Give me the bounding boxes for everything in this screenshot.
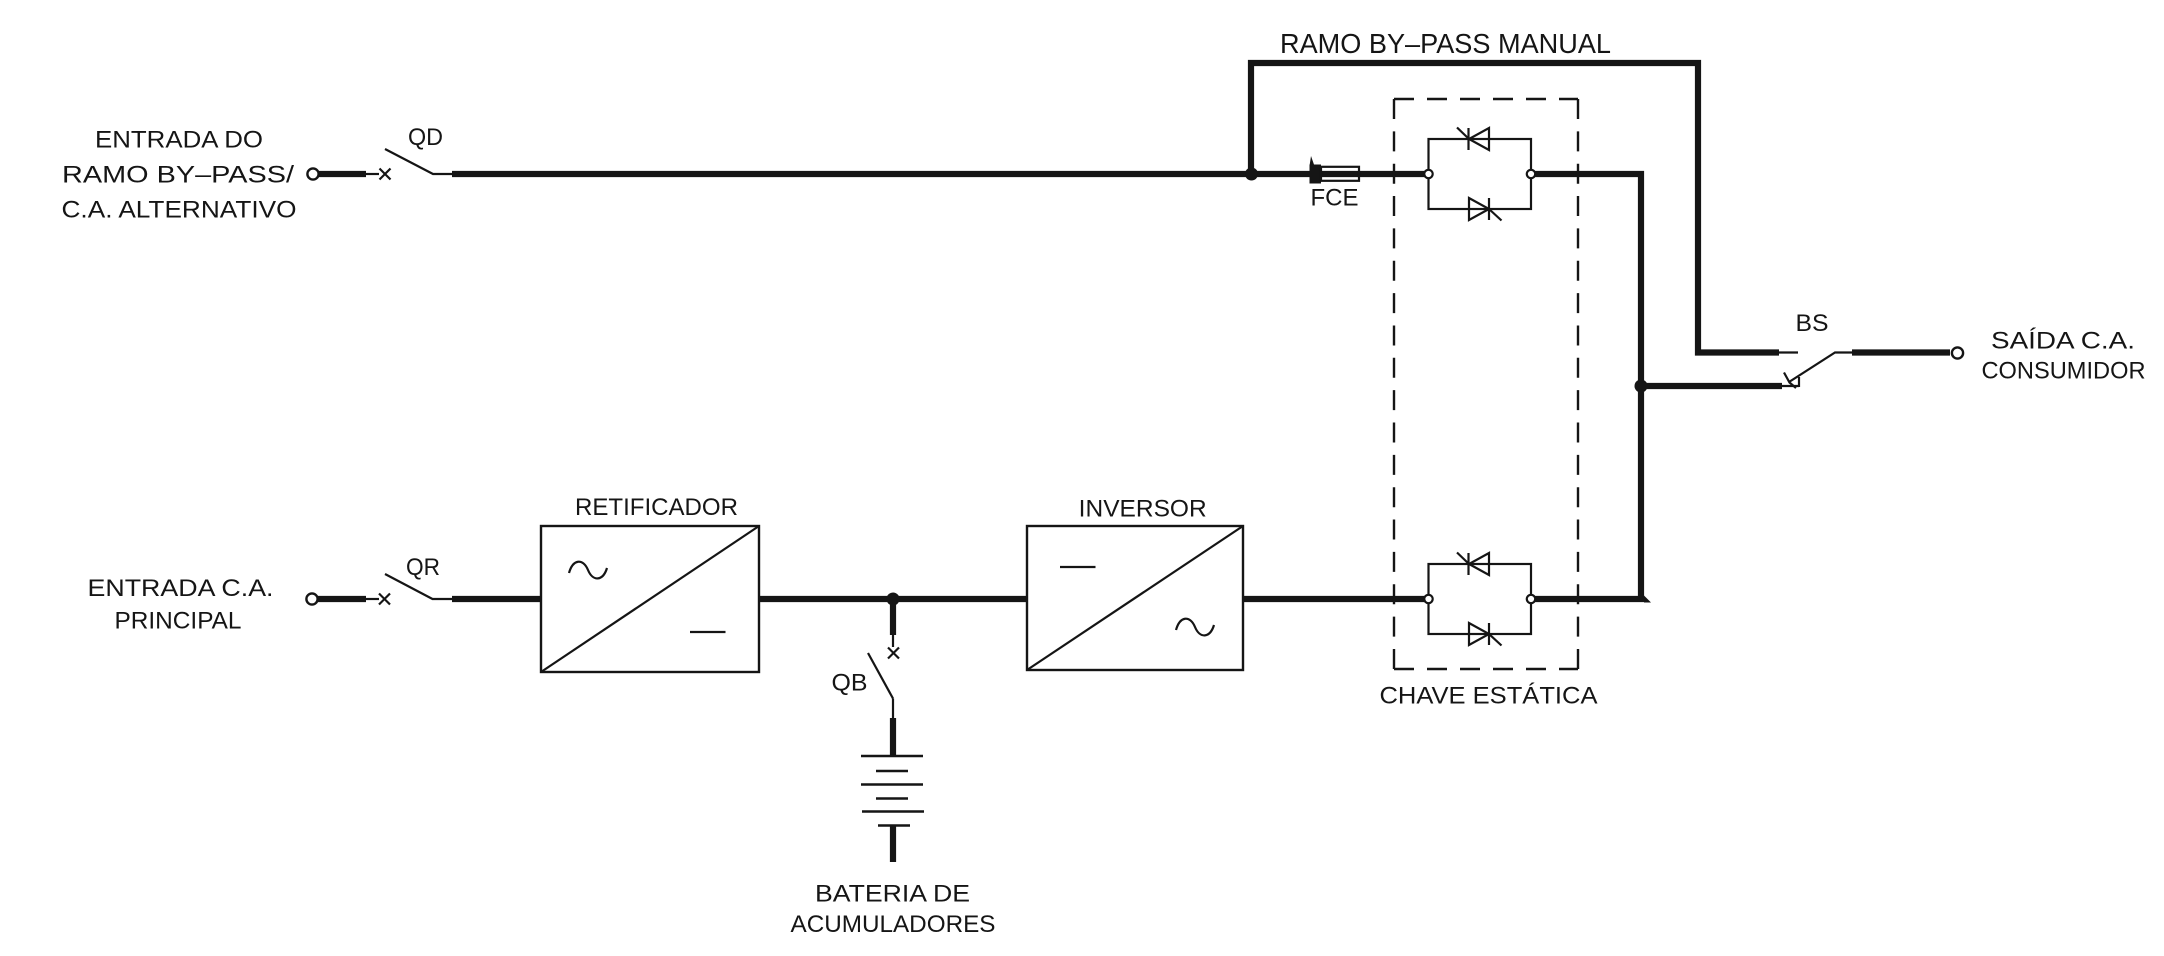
- battery plates: [861, 755, 923, 758]
- terminal: saida c.a.: [1952, 347, 1963, 358]
- svg-text:ENTRADA DO: ENTRADA DO: [95, 127, 263, 154]
- junction: battery tap: [887, 593, 900, 606]
- rectifier ac sine: [569, 562, 607, 579]
- terminal circles upper cell: [1424, 170, 1432, 178]
- inverter ac sine: [1176, 619, 1214, 636]
- static switch upper cell frame: [1429, 139, 1532, 209]
- svg-text:RETIFICADOR: RETIFICADOR: [575, 494, 738, 521]
- svg-text:ACUMULADORES: ACUMULADORES: [791, 911, 996, 938]
- svg-text:QR: QR: [406, 554, 440, 581]
- fuse FCE filled block: [1310, 165, 1322, 184]
- wire: output stub to consumer: [1852, 349, 1950, 355]
- wire: BS ups contact feed: [1641, 383, 1782, 389]
- wire thin before contact: [366, 598, 379, 600]
- bevel tail at output bus corner: [1644, 596, 1651, 603]
- terminal: entrada principal: [306, 593, 317, 604]
- wire: battery branch upper: [890, 599, 896, 635]
- inverter diagonal: [1027, 526, 1243, 670]
- wire: dc link: [759, 596, 1027, 602]
- switch QD blade: [385, 149, 452, 174]
- switch QB blade: [868, 653, 893, 699]
- thyristor lower cell top (points left): [1469, 553, 1489, 575]
- svg-text:RAMO BY–PASS/: RAMO BY–PASS/: [62, 162, 294, 189]
- svg-text:ENTRADA C.A.: ENTRADA C.A.: [88, 575, 274, 602]
- switch BS blade: [1789, 353, 1852, 383]
- wire: inverter output to static switch: [1243, 596, 1425, 602]
- blade arrowhead: [1784, 373, 1796, 389]
- wire stub at entrada by-pass terminal: [319, 171, 366, 177]
- svg-text:QB: QB: [832, 670, 868, 697]
- contact x of QD: [380, 169, 391, 180]
- fuse FCE cartridge outline: [1321, 167, 1359, 181]
- switch QR blade: [385, 574, 452, 599]
- wire thin before contact: [366, 173, 379, 175]
- svg-text:BATERIA DE: BATERIA DE: [815, 881, 970, 908]
- svg-text:C.A. ALTERNATIVO: C.A. ALTERNATIVO: [62, 197, 297, 224]
- inverter box: [1027, 526, 1243, 670]
- fuse FCE body spike: [1310, 156, 1315, 166]
- contact x of QR: [379, 594, 390, 605]
- dashed enclosure: chave estatica: [1394, 98, 1578, 100]
- svg-text:QD: QD: [408, 124, 443, 151]
- inverter dc dash: [1060, 566, 1096, 568]
- contact hook BS: [1798, 377, 1800, 387]
- thyristor upper cell bottom (points right): [1469, 198, 1489, 220]
- svg-text:RAMO BY–PASS MANUAL: RAMO BY–PASS MANUAL: [1280, 28, 1611, 59]
- wire: static switch output bus (top cell out, riser, bottom cell out): [1535, 174, 1641, 599]
- wire QR to rectifier: [452, 596, 541, 602]
- rectifier diagonal: [541, 526, 759, 672]
- wire: by-pass feeder (QD to fuse to static switch): [452, 171, 1425, 177]
- wire: to battery: [890, 718, 896, 756]
- rectifier dc dash: [690, 631, 726, 633]
- rectifier box: [541, 526, 759, 672]
- wire: ramo by-pass manual loop (riser left, top run, riser right, BS top contact stub): [1251, 63, 1779, 353]
- svg-text:FCE: FCE: [1311, 185, 1359, 212]
- thin lead of BS top contact: [1779, 351, 1798, 353]
- static switch lower cell frame: [1429, 564, 1532, 634]
- contact x of QB: [888, 648, 899, 659]
- svg-text:CHAVE ESTÁTICA: CHAVE ESTÁTICA: [1380, 683, 1598, 710]
- thyristor lower cell bottom (points right): [1469, 623, 1489, 645]
- wire stub after terminal: [318, 596, 366, 602]
- junction: BS ups tap: [1635, 380, 1648, 393]
- junction: by-pass tap: [1245, 168, 1258, 181]
- terminal: entrada do ramo by-pass: [307, 168, 318, 179]
- thyristor upper cell top (points left): [1469, 128, 1489, 150]
- svg-text:BS: BS: [1796, 310, 1829, 337]
- svg-text:INVERSOR: INVERSOR: [1079, 496, 1207, 523]
- wire: battery bottom lead: [890, 826, 896, 863]
- svg-text:CONSUMIDOR: CONSUMIDOR: [1982, 358, 2146, 385]
- terminal circles lower cell: [1424, 595, 1432, 603]
- svg-text:SAÍDA C.A.: SAÍDA C.A.: [1991, 328, 2135, 355]
- svg-text:PRINCIPAL: PRINCIPAL: [115, 608, 242, 635]
